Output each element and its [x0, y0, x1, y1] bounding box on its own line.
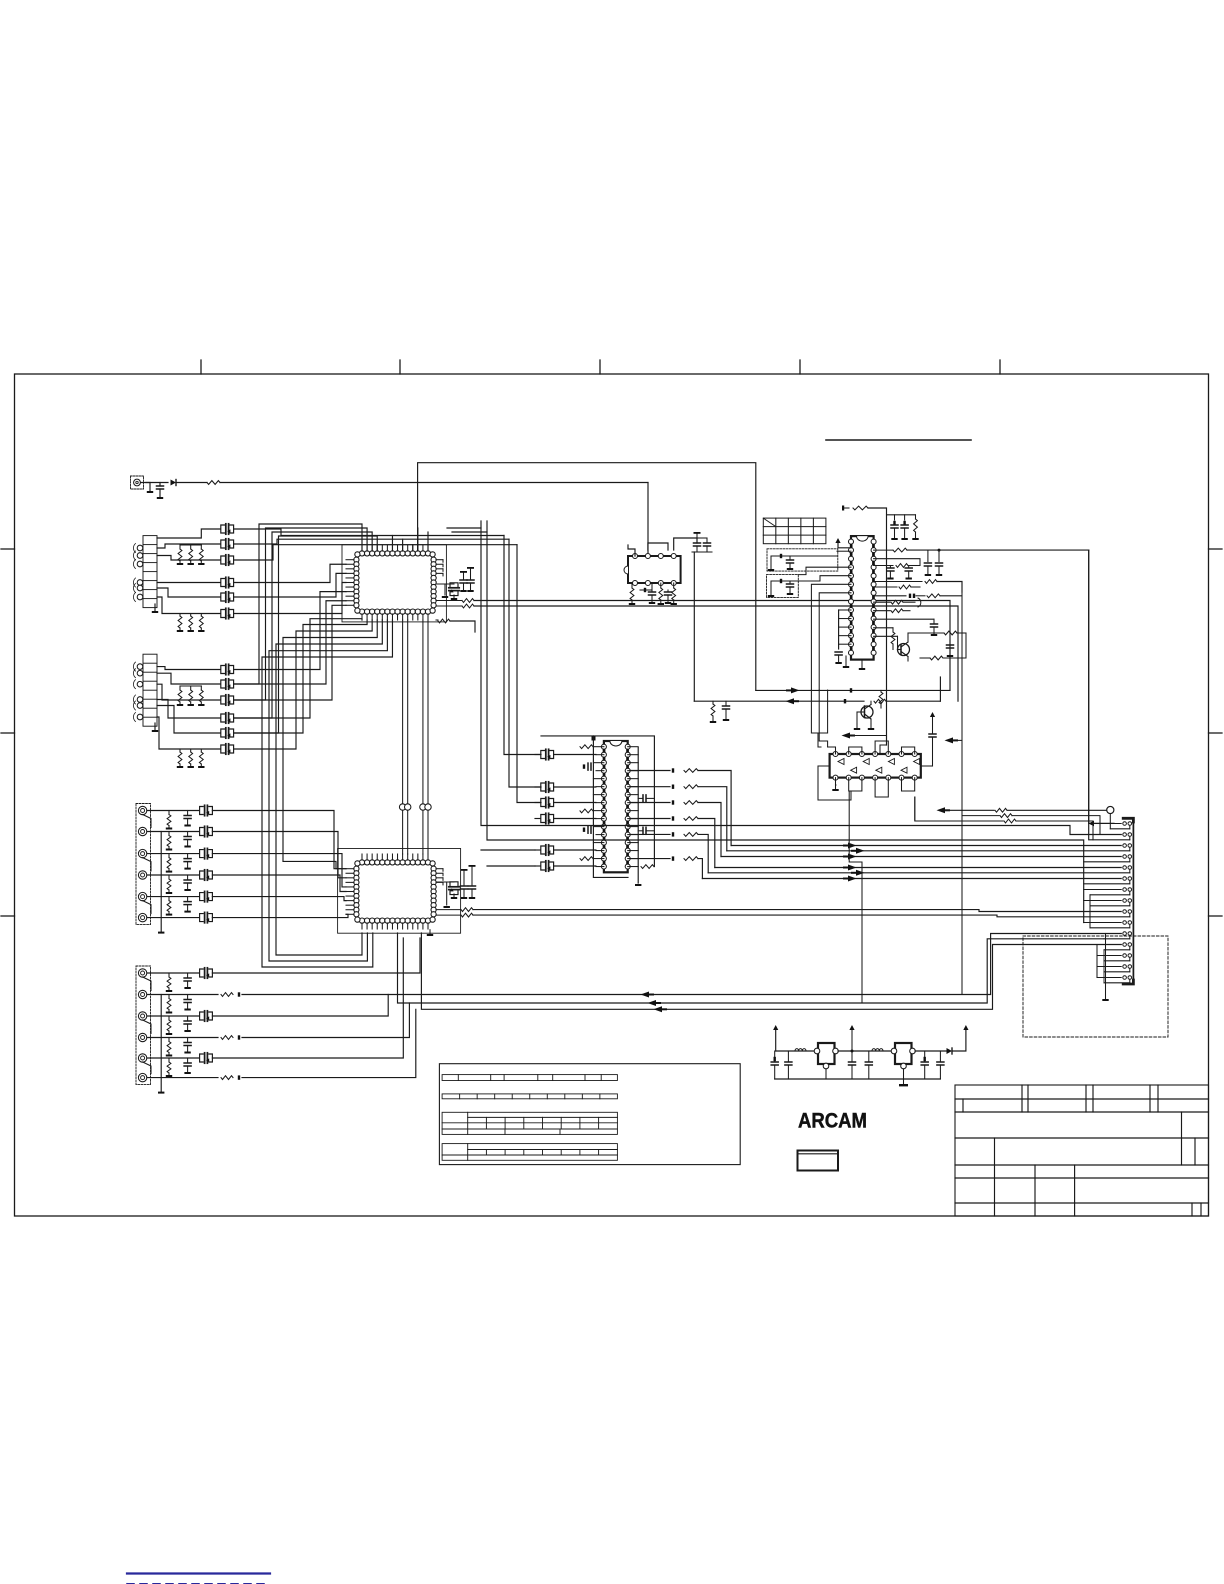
wire	[158, 995, 164, 1094]
wire	[776, 1050, 818, 1052]
arrow	[786, 689, 792, 691]
link jumper	[404, 804, 410, 810]
logo box	[798, 1151, 839, 1171]
wire	[452, 531, 487, 533]
diode D	[238, 1075, 240, 1079]
wire	[412, 545, 414, 551]
ground	[444, 882, 450, 908]
wire	[147, 994, 218, 996]
capacitor	[583, 826, 591, 833]
capacitor	[849, 1062, 856, 1079]
capacitor	[200, 805, 213, 815]
resistor	[166, 875, 172, 894]
wire	[157, 673, 220, 684]
wire	[234, 620, 372, 749]
resistor	[580, 809, 593, 813]
capacitor	[184, 1016, 191, 1032]
diode D	[238, 1035, 240, 1039]
wire	[628, 545, 635, 556]
resistor	[177, 686, 183, 706]
wire	[436, 560, 443, 576]
resistor	[188, 686, 194, 706]
capacitor	[469, 865, 476, 899]
wire	[708, 872, 1130, 874]
wire	[177, 482, 207, 484]
resistor	[641, 865, 654, 869]
wire	[234, 592, 346, 670]
frame tick	[1209, 915, 1223, 917]
arrow	[662, 1008, 668, 1010]
capacitor	[184, 811, 191, 827]
ground	[843, 656, 849, 668]
power flag	[835, 538, 851, 548]
border frame	[15, 374, 1209, 1216]
wire	[698, 787, 727, 851]
capacitor	[184, 875, 191, 891]
capacitor	[785, 1051, 792, 1079]
wire	[874, 618, 934, 620]
wire	[147, 1077, 218, 1079]
wire	[535, 818, 540, 820]
arrow	[794, 700, 800, 702]
wire	[402, 620, 404, 854]
wire	[422, 620, 424, 854]
wire	[212, 995, 388, 1017]
arrow	[843, 867, 849, 869]
capacitor	[184, 897, 191, 913]
resistor	[436, 604, 958, 701]
wire	[535, 802, 540, 804]
wire	[554, 818, 596, 820]
capacitor	[541, 782, 554, 792]
wire	[436, 869, 443, 885]
wire	[554, 865, 596, 867]
wire	[147, 810, 199, 812]
capacitor	[184, 832, 191, 848]
resistor	[912, 515, 918, 540]
capacitor	[200, 1053, 213, 1063]
wire	[147, 1037, 218, 1039]
wire	[811, 690, 821, 747]
wire	[143, 901, 151, 914]
capacitor	[221, 744, 234, 754]
wire	[1084, 922, 1122, 924]
wire	[541, 736, 654, 867]
wire	[147, 831, 199, 833]
wire	[819, 690, 827, 747]
resistor	[436, 599, 950, 691]
jack pin	[138, 1012, 146, 1020]
op-amp U3 (DIP8)	[624, 554, 681, 586]
wire	[825, 1069, 827, 1079]
capacitor	[184, 973, 191, 989]
capacitor	[901, 515, 908, 540]
wire	[143, 977, 151, 991]
capacitor	[936, 550, 943, 576]
wire	[212, 938, 420, 973]
wire	[391, 536, 393, 552]
arrow	[843, 856, 849, 858]
resistor	[221, 1076, 233, 1080]
resistor	[658, 583, 664, 605]
resistor	[166, 854, 172, 873]
wire	[839, 610, 851, 649]
wire	[647, 483, 649, 553]
resistor	[962, 593, 1121, 995]
resistor	[874, 585, 920, 589]
wire	[487, 865, 535, 867]
wire	[838, 1050, 895, 1052]
power flag	[849, 1025, 854, 1062]
power flag	[963, 1025, 968, 1030]
resistor	[874, 548, 1089, 552]
resistor	[436, 908, 1121, 912]
power flag	[592, 737, 596, 741]
diode D	[844, 699, 846, 703]
wire	[771, 556, 837, 571]
wire	[487, 521, 1084, 923]
wire	[630, 802, 670, 804]
wire	[953, 1030, 966, 1051]
connector J5 (phono group 4)	[136, 966, 151, 1085]
wire	[157, 544, 220, 548]
jack pin	[133, 713, 142, 722]
wire	[914, 797, 916, 820]
wire	[362, 854, 428, 929]
inductor L2	[872, 1049, 883, 1051]
capacitor	[436, 583, 459, 600]
diode D	[672, 832, 674, 836]
resistor	[915, 797, 1093, 840]
wire	[837, 550, 851, 552]
wire	[157, 706, 220, 734]
capacitor	[887, 566, 894, 580]
wire	[402, 539, 404, 551]
wire	[180, 544, 201, 546]
wire	[143, 1062, 151, 1074]
wire	[628, 747, 639, 867]
arrow	[953, 739, 959, 741]
svg-text:ARCAM: ARCAM	[798, 1110, 867, 1133]
capacitor	[921, 1051, 928, 1079]
transistor Q1	[898, 637, 910, 661]
wire	[242, 1009, 416, 1077]
capacitor	[221, 555, 234, 565]
resistor	[177, 749, 183, 768]
capacitor	[583, 763, 591, 770]
resistor	[188, 614, 194, 633]
wire	[143, 815, 151, 828]
resistor	[710, 701, 716, 723]
wire	[234, 545, 517, 560]
resistor	[671, 583, 677, 605]
wire	[915, 1050, 946, 1052]
ground	[854, 724, 860, 730]
op-amp U2 (QFP DAC 2)	[354, 860, 436, 923]
resistor	[879, 690, 883, 708]
shield box (dotted)	[767, 549, 838, 571]
wire	[234, 539, 509, 544]
capacitor	[200, 968, 213, 978]
ground	[832, 785, 838, 791]
resistor	[874, 564, 920, 568]
wire	[421, 933, 1121, 1009]
wire	[698, 803, 721, 857]
wire	[1099, 823, 1121, 825]
wire	[234, 619, 362, 718]
wire	[1097, 945, 1130, 983]
wire	[346, 869, 354, 915]
resistor	[166, 1058, 172, 1077]
wire	[427, 620, 429, 854]
wire	[143, 858, 151, 871]
resistor	[684, 857, 698, 861]
wire	[1090, 894, 1130, 896]
wire	[1089, 550, 1130, 840]
resistor	[684, 801, 698, 805]
ground	[899, 1069, 908, 1087]
resistor	[920, 656, 943, 660]
wire	[234, 564, 346, 582]
resistor	[166, 973, 172, 992]
ground	[859, 660, 865, 670]
capacitor	[931, 619, 938, 636]
capacitor	[221, 713, 234, 723]
wire	[212, 854, 346, 887]
wire	[535, 786, 540, 788]
jack pin	[138, 1033, 146, 1041]
wire	[849, 747, 862, 754]
resistor	[198, 749, 204, 768]
op-amp U1 (QFP DAC 1)	[354, 551, 436, 614]
transistor Q2	[861, 701, 873, 724]
wire	[157, 588, 220, 597]
resistor	[221, 1036, 233, 1040]
connector J3 (phono group 2)	[143, 654, 157, 726]
resistor	[629, 583, 635, 605]
frame tick	[1, 548, 15, 550]
capacitor	[184, 1058, 191, 1074]
capacitor	[638, 795, 654, 802]
diode D	[672, 816, 674, 820]
wire	[727, 850, 1130, 852]
resistor	[198, 686, 204, 706]
wire	[852, 736, 887, 755]
arrow	[851, 872, 857, 874]
wire	[702, 878, 1121, 880]
wire	[283, 620, 377, 869]
wire	[902, 778, 915, 791]
wire	[630, 858, 670, 860]
capacitor	[221, 664, 234, 674]
capacitor	[436, 882, 459, 899]
wire	[698, 771, 731, 846]
wire	[944, 633, 966, 658]
wire	[147, 853, 199, 855]
power flag	[842, 506, 844, 511]
ground	[152, 604, 158, 613]
diode D	[672, 768, 674, 772]
frame tick	[1209, 732, 1223, 734]
wire	[234, 532, 372, 718]
ground	[868, 724, 874, 730]
wire	[857, 711, 865, 713]
wire	[212, 811, 346, 869]
capacitor	[921, 712, 936, 766]
jack pin	[133, 662, 142, 671]
capacitor	[891, 515, 898, 540]
wire	[346, 560, 354, 606]
wire	[147, 896, 199, 898]
jack pin	[133, 584, 142, 593]
wire	[234, 529, 504, 536]
resistor R1	[207, 481, 220, 485]
resistor	[198, 614, 204, 633]
wire	[418, 463, 756, 691]
ground	[427, 930, 433, 936]
wire	[234, 524, 362, 684]
wire	[157, 556, 220, 561]
jack pin	[138, 892, 146, 900]
frame tick	[1, 915, 15, 917]
wire	[694, 700, 864, 702]
title block	[955, 1085, 1209, 1216]
wire	[874, 627, 893, 629]
jack pin	[138, 1054, 146, 1062]
wire	[212, 897, 346, 901]
capacitor	[541, 845, 554, 855]
wire	[715, 867, 1121, 869]
resistor	[436, 913, 1130, 917]
resistor	[436, 619, 475, 632]
wire	[143, 1020, 151, 1034]
jack pin	[138, 1073, 146, 1081]
diode D	[850, 688, 852, 692]
capacitor	[692, 538, 712, 552]
wire	[1090, 905, 1130, 907]
voltage regulator VR1	[814, 1043, 838, 1069]
resistor	[166, 1016, 172, 1035]
resistor	[684, 833, 698, 837]
wire	[157, 529, 220, 538]
connector pin 1 ring	[1107, 806, 1130, 828]
capacitor	[649, 583, 656, 604]
capacitor	[865, 1051, 872, 1079]
resistor	[853, 506, 868, 510]
wire	[1104, 938, 1130, 940]
wire	[902, 747, 915, 754]
wire	[234, 605, 346, 700]
wire	[843, 507, 849, 509]
resistor	[927, 594, 962, 598]
wire	[1106, 933, 1122, 935]
capacitor	[184, 995, 191, 1011]
frame tick	[200, 360, 202, 374]
capacitor	[541, 813, 554, 823]
wire	[674, 538, 697, 550]
jack pin	[138, 827, 146, 835]
footer link line	[127, 1572, 270, 1574]
capacitor	[924, 550, 931, 576]
wire	[504, 536, 541, 755]
resistor	[177, 614, 183, 633]
wire	[220, 482, 648, 484]
resistor	[188, 545, 194, 565]
capacitor	[905, 566, 912, 580]
resistor	[166, 897, 172, 916]
ground	[442, 584, 448, 598]
capacitor	[638, 827, 654, 834]
capacitor	[787, 581, 794, 595]
signal arrow	[1089, 821, 1100, 826]
capacitor	[221, 592, 234, 602]
wire ring	[338, 849, 461, 934]
wire	[875, 778, 888, 797]
wire	[698, 834, 708, 872]
wire	[554, 786, 596, 788]
wire	[269, 620, 387, 961]
capacitor	[541, 749, 554, 759]
title underline	[826, 439, 971, 441]
capacitor C1	[157, 483, 164, 500]
capacitor	[221, 695, 234, 705]
wire	[157, 700, 220, 719]
wire	[535, 754, 540, 756]
wire	[693, 552, 695, 701]
wire	[554, 802, 596, 804]
diode D	[672, 856, 674, 860]
capacitor	[200, 826, 213, 836]
wire	[849, 778, 862, 791]
wire	[835, 778, 838, 785]
diode D	[780, 554, 782, 558]
wire	[1089, 550, 1114, 823]
resistor	[166, 995, 172, 1014]
jack pin	[138, 806, 146, 814]
frame tick	[1209, 548, 1223, 550]
resistor	[580, 745, 593, 749]
ground	[152, 723, 158, 732]
wire	[535, 849, 540, 851]
wire	[212, 938, 403, 1058]
wire	[234, 573, 346, 597]
wire	[593, 736, 628, 878]
arrow	[649, 994, 655, 996]
frame tick	[799, 360, 801, 374]
capacitor	[221, 577, 234, 587]
wire	[234, 601, 346, 684]
wire	[1090, 927, 1130, 929]
diode D	[238, 992, 240, 996]
wire	[697, 537, 707, 539]
wire	[398, 933, 1105, 1003]
arrow	[843, 878, 849, 880]
link jumper	[420, 804, 426, 810]
wire	[731, 845, 1121, 847]
dashed block (display board)	[1023, 936, 1168, 1037]
resistor	[580, 857, 593, 861]
connector pins	[1123, 822, 1132, 983]
frame tick	[1, 732, 15, 734]
capacitor	[541, 797, 554, 807]
capacitor	[771, 1051, 778, 1079]
arrow	[850, 735, 856, 737]
resistor	[684, 785, 698, 789]
jack pin	[133, 669, 142, 678]
capacitor	[787, 556, 794, 570]
ground	[768, 595, 774, 597]
ground	[635, 884, 641, 886]
